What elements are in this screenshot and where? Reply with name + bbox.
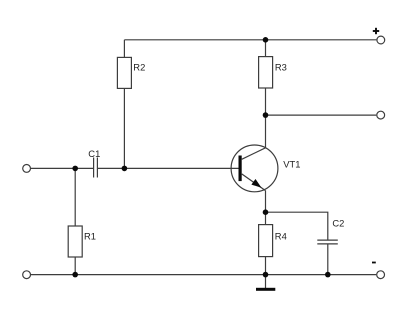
wire bottom rail: [31, 274, 376, 276]
capacitor C2: [317, 240, 338, 244]
resistor R1: [68, 226, 82, 257]
resistor R4: [259, 225, 273, 257]
capacitor C1: [94, 158, 98, 178]
wire C2 bottom lead: [327, 244, 329, 275]
svg-text:R1: R1: [84, 231, 96, 242]
junction node input/R1: [72, 166, 78, 172]
wire collector vertical: [265, 88, 267, 148]
svg-text:R3: R3: [275, 62, 287, 73]
junction node R4 bottom rail: [263, 272, 269, 278]
svg-text:R2: R2: [133, 61, 145, 72]
junction node R1 bottom rail: [72, 272, 78, 278]
junction node collector/output: [263, 112, 269, 118]
wire R2 bottom lead to base node: [123, 88, 125, 168]
terminal bottom left: [23, 271, 31, 279]
terminal output: [377, 111, 385, 119]
transistor VT1: [231, 145, 278, 192]
wire R4 bottom lead: [265, 257, 267, 275]
junction node emitter: [263, 209, 269, 215]
wire emitter vertical: [265, 191, 267, 225]
wire base lead: [98, 167, 239, 169]
resistor R3: [259, 57, 273, 88]
wire emitter node to C2: [266, 212, 328, 240]
junction node at R3 top: [263, 37, 269, 43]
svg-text:VT1: VT1: [283, 158, 300, 169]
resistor R2: [117, 57, 131, 88]
svg-text:C2: C2: [332, 218, 344, 229]
terminal input: [23, 165, 31, 173]
wire R1 bottom lead: [74, 257, 76, 275]
terminal + positive supply: [377, 36, 385, 44]
wire top supply rail: [124, 39, 376, 41]
terminal - negative supply: [377, 271, 385, 279]
wire R1 top lead: [74, 168, 76, 226]
wire output lead: [266, 114, 377, 116]
svg-text:C1: C1: [88, 148, 100, 159]
svg-text:R4: R4: [275, 230, 287, 241]
junction node C2 bottom rail: [325, 272, 331, 278]
minus sign: [372, 262, 376, 264]
wire input lead: [31, 167, 93, 169]
plus sign: [373, 28, 379, 34]
wire R2 top lead: [123, 40, 125, 58]
ground: [256, 275, 275, 291]
wire R3 top lead: [265, 40, 267, 57]
junction node base/R2: [122, 166, 128, 172]
